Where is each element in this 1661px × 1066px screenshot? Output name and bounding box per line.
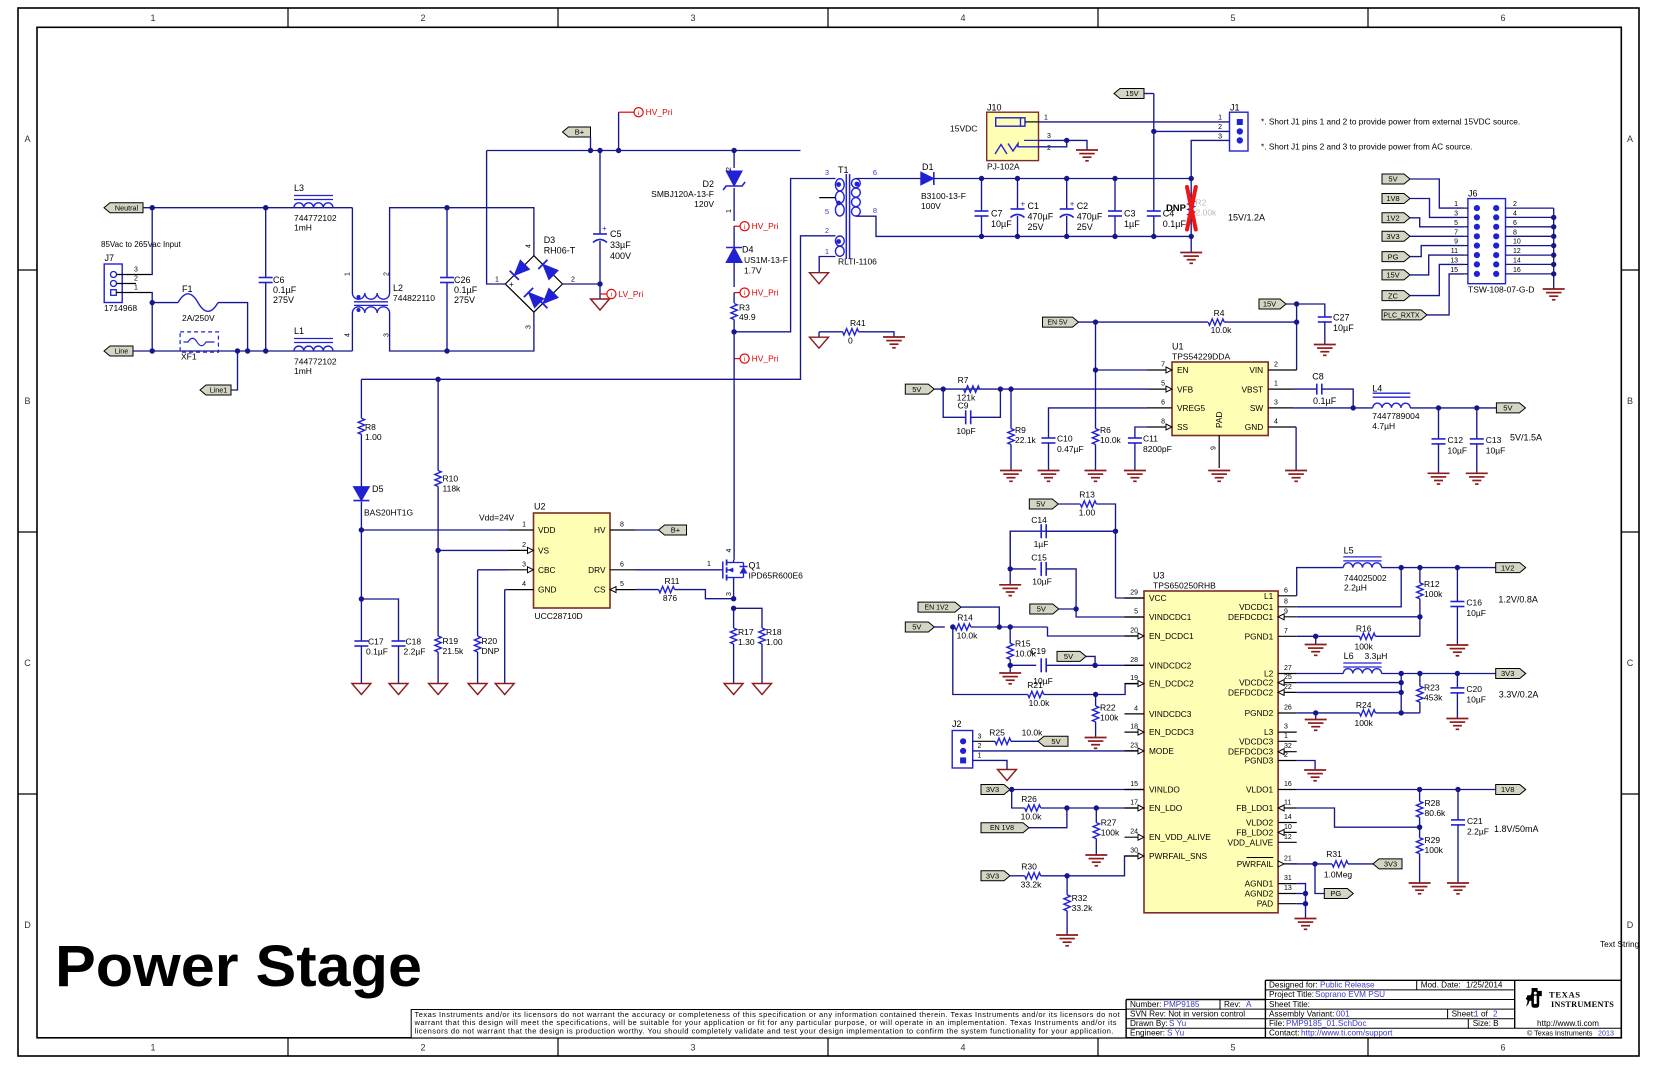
svg-text:FB_LDO2: FB_LDO2 xyxy=(1236,827,1273,837)
svg-text:12: 12 xyxy=(1284,834,1292,841)
svg-text:J2: J2 xyxy=(952,719,962,729)
resistor R9 xyxy=(1010,389,1012,428)
svg-text:R41: R41 xyxy=(850,318,866,328)
capacitor C18 xyxy=(361,599,398,641)
ground C10 xyxy=(1038,470,1060,472)
svg-text:2.2µF: 2.2µF xyxy=(1467,826,1489,836)
wire T1 aux to sense xyxy=(361,236,835,379)
ground R18 xyxy=(753,684,772,695)
svg-text:EN 1V2: EN 1V2 xyxy=(924,605,948,612)
wire R21 row from EN_1V2 net xyxy=(953,627,1028,695)
resistor R14 xyxy=(934,626,945,628)
svg-text:33.2k: 33.2k xyxy=(1021,880,1043,890)
resistor R4 xyxy=(1208,319,1224,325)
svg-text:IPD65R600E6: IPD65R600E6 xyxy=(749,571,804,581)
svg-text:5V: 5V xyxy=(912,385,921,394)
svg-text:100V: 100V xyxy=(921,201,941,211)
svg-text:1: 1 xyxy=(1454,201,1458,208)
svg-text:C9: C9 xyxy=(958,401,969,411)
svg-text:*. Short J1 pins 1 and 2 to pr: *. Short J1 pins 1 and 2 to provide powe… xyxy=(1261,117,1520,127)
svg-text:6: 6 xyxy=(1161,399,1165,406)
svg-text:1.30: 1.30 xyxy=(738,637,755,647)
svg-text:HV_Pri: HV_Pri xyxy=(752,221,779,231)
ground PGND3 xyxy=(1304,769,1326,771)
svg-text:3: 3 xyxy=(825,168,829,177)
svg-text:10µF: 10µF xyxy=(1032,577,1052,587)
wire VS row xyxy=(438,549,508,551)
svg-text:U1: U1 xyxy=(1172,342,1184,352)
logo Texas Instruments xyxy=(1526,988,1542,1008)
svg-text:Soprano EVM PSU: Soprano EVM PSU xyxy=(1315,990,1385,999)
svg-text:100k: 100k xyxy=(1100,713,1119,723)
wire PGND1 to R16 xyxy=(1297,635,1360,637)
capacitor C17 xyxy=(354,640,368,642)
svg-text:C3: C3 xyxy=(1124,209,1136,219)
svg-text:5V: 5V xyxy=(1064,652,1073,661)
svg-text:R32: R32 xyxy=(1072,893,1088,903)
ground C20 xyxy=(1446,718,1468,720)
svg-text:VIN: VIN xyxy=(1249,365,1263,375)
svg-text:470µF: 470µF xyxy=(1028,212,1054,222)
net flag Neutral xyxy=(104,203,143,213)
svg-text:C19: C19 xyxy=(1030,646,1046,656)
wire SW row xyxy=(1293,407,1373,409)
svg-text:MODE: MODE xyxy=(1149,746,1174,756)
svg-text:11: 11 xyxy=(1451,248,1458,255)
svg-text:D5: D5 xyxy=(372,484,384,494)
svg-text:BAS20HT1G: BAS20HT1G xyxy=(364,508,413,518)
power port HV_Pri 3 xyxy=(734,292,740,294)
svg-text:6: 6 xyxy=(1284,587,1288,594)
resistor R25 xyxy=(973,740,995,742)
svg-text:1µF: 1µF xyxy=(1034,539,1049,549)
svg-text:R23: R23 xyxy=(1424,683,1440,693)
svg-text:TEXAS: TEXAS xyxy=(1549,990,1581,1000)
svg-text:10: 10 xyxy=(1284,824,1292,831)
svg-text:23: 23 xyxy=(1130,742,1138,749)
svg-text:15V: 15V xyxy=(1125,89,1138,98)
svg-text:1: 1 xyxy=(522,522,526,529)
svg-text:13: 13 xyxy=(1450,257,1458,264)
svg-text:C7: C7 xyxy=(991,209,1003,219)
svg-text:19: 19 xyxy=(1130,675,1138,682)
svg-text:10.0k: 10.0k xyxy=(1029,698,1051,708)
wire VDCDC2 feedback xyxy=(1297,682,1402,684)
svg-text:SMBJ120A-13-F: SMBJ120A-13-F xyxy=(651,189,714,199)
diode D2 TVS xyxy=(733,151,735,169)
net flag 3V3 to J6 xyxy=(1382,231,1410,241)
svg-text:0.47µF: 0.47µF xyxy=(1057,444,1084,454)
svg-text:100k: 100k xyxy=(1354,641,1373,651)
svg-text:R8: R8 xyxy=(365,422,376,432)
resistor R30 xyxy=(1010,875,1025,877)
svg-text:C1: C1 xyxy=(1028,201,1040,211)
svg-text:5V: 5V xyxy=(1503,404,1512,413)
svg-text:PMP9185_01.SchDoc: PMP9185_01.SchDoc xyxy=(1286,1019,1367,1028)
wire VLDO1 1V8 row xyxy=(1297,789,1496,791)
svg-text:1: 1 xyxy=(150,1043,155,1053)
svg-text:VDCDC3: VDCDC3 xyxy=(1239,736,1274,746)
wire bridge minus to LV node xyxy=(563,283,601,285)
svg-text:VBST: VBST xyxy=(1242,384,1264,394)
ground R32 xyxy=(1056,934,1078,936)
svg-text:2: 2 xyxy=(571,277,575,284)
wire EN_1V8 xyxy=(1029,808,1067,828)
svg-text:5V: 5V xyxy=(912,623,921,632)
svg-text:10.0k: 10.0k xyxy=(1022,728,1044,738)
ground PGND2 xyxy=(1305,719,1327,721)
common-mode choke L2 xyxy=(351,208,353,293)
svg-text:6: 6 xyxy=(1513,220,1517,227)
svg-text:DNP: DNP xyxy=(1166,203,1187,214)
svg-text:XF1: XF1 xyxy=(181,352,197,362)
svg-text:D4: D4 xyxy=(742,245,754,255)
net flag 3V3 at PWRFAIL xyxy=(1373,859,1402,869)
svg-text:VLDO1: VLDO1 xyxy=(1246,785,1274,795)
svg-text:3: 3 xyxy=(1274,399,1278,406)
svg-text:PAD: PAD xyxy=(1257,899,1273,909)
wire clamp node to Q1 drain xyxy=(733,332,735,560)
resistor R29 xyxy=(1419,827,1421,838)
capacitor C3 xyxy=(1114,179,1116,212)
svg-text:8: 8 xyxy=(1161,419,1165,426)
net flag EN 5V xyxy=(1043,317,1079,327)
svg-text:LV_Pri: LV_Pri xyxy=(618,289,643,299)
svg-text:16: 16 xyxy=(1513,267,1521,274)
svg-text:120V: 120V xyxy=(694,199,714,209)
svg-text:+: + xyxy=(509,280,514,289)
fuse XF1 dashed alternate xyxy=(180,332,218,352)
wire to EN_DCDC2 xyxy=(1096,684,1147,695)
svg-text:275V: 275V xyxy=(454,295,475,305)
svg-text:8: 8 xyxy=(620,522,624,529)
svg-text:3: 3 xyxy=(1284,724,1288,731)
svg-text:744772102: 744772102 xyxy=(294,213,337,223)
wire C14 row right xyxy=(1046,530,1115,532)
svg-text:J7: J7 xyxy=(105,253,115,263)
svg-text:3: 3 xyxy=(690,1043,695,1053)
wire T1 primary tap stub xyxy=(819,197,835,199)
svg-text:0.1µF: 0.1µF xyxy=(454,285,478,295)
svg-text:7: 7 xyxy=(1161,362,1165,369)
svg-text:Power Stage: Power Stage xyxy=(55,934,422,999)
svg-text:Public Release: Public Release xyxy=(1320,981,1375,990)
svg-text:10µF: 10µF xyxy=(1448,446,1468,456)
svg-text:R10: R10 xyxy=(443,474,459,484)
capacitor C8 bootstrap xyxy=(1293,388,1317,390)
svg-text:C8: C8 xyxy=(1312,372,1324,382)
svg-text:R9: R9 xyxy=(1015,425,1026,435)
resistor R24 xyxy=(1359,710,1375,716)
net flag 3V3 output xyxy=(1496,669,1526,679)
svg-text:5: 5 xyxy=(1454,220,1458,227)
svg-text:1: 1 xyxy=(1044,115,1048,122)
svg-text:R2: R2 xyxy=(1196,198,1207,208)
wire Vdd node xyxy=(361,529,508,531)
svg-text:http://www.ti.com/support: http://www.ti.com/support xyxy=(1301,1029,1393,1038)
wire J10 pin1 to J1 pin1 xyxy=(1039,121,1230,123)
resistor R19 xyxy=(437,550,439,636)
wire PWRFAIL row xyxy=(1290,863,1332,865)
svg-text:2: 2 xyxy=(726,167,733,171)
svg-text:+: + xyxy=(1021,200,1026,209)
wire EN_1V2 to R14 row xyxy=(961,607,999,627)
svg-text:C15: C15 xyxy=(1031,553,1047,563)
capacitor C20 xyxy=(1456,674,1458,688)
ground R6 xyxy=(1085,470,1107,472)
svg-text:15V/1.2A: 15V/1.2A xyxy=(1228,213,1265,223)
svg-text:3.3µH: 3.3µH xyxy=(1365,651,1388,661)
capacitor C5 bulk xyxy=(599,151,601,235)
svg-text:GND: GND xyxy=(538,585,556,595)
svg-text:C5: C5 xyxy=(610,229,622,239)
resistor R22 xyxy=(1095,695,1097,706)
wire 15V to VIN and C27 xyxy=(1286,304,1325,317)
svg-text:R12: R12 xyxy=(1424,579,1440,589)
capacitor C9 xyxy=(943,389,966,417)
svg-text:5V: 5V xyxy=(1037,605,1046,614)
transistor Q1 MOSFET xyxy=(722,562,724,579)
ground secondary rail xyxy=(1190,236,1192,252)
svg-text:2A/250V: 2A/250V xyxy=(182,313,215,323)
svg-text:EN 1V8: EN 1V8 xyxy=(990,825,1014,832)
title block xyxy=(1265,979,1621,981)
svg-text:R21: R21 xyxy=(1027,680,1043,690)
resistor R2 DNP xyxy=(1190,179,1192,201)
svg-text:27: 27 xyxy=(1284,665,1292,672)
svg-text:EN: EN xyxy=(1177,365,1189,375)
capacitor C16 xyxy=(1456,568,1458,602)
svg-text:R22: R22 xyxy=(1100,703,1116,713)
ground C21 xyxy=(1447,882,1469,884)
capacitor C2 xyxy=(1066,179,1068,210)
net flag EN 1V8 xyxy=(981,823,1029,833)
svg-text:4: 4 xyxy=(1134,705,1138,712)
svg-text:11: 11 xyxy=(1284,800,1291,807)
svg-text:3V3: 3V3 xyxy=(986,785,999,794)
svg-text:1.00: 1.00 xyxy=(766,637,783,647)
resistor R27 xyxy=(1095,808,1097,823)
svg-text:10: 10 xyxy=(1513,239,1521,246)
svg-text:1: 1 xyxy=(1284,733,1288,740)
svg-text:C10: C10 xyxy=(1057,434,1073,444)
ground C16 xyxy=(1446,644,1468,646)
svg-text:5: 5 xyxy=(1161,381,1165,388)
svg-text:VDD_ALIVE: VDD_ALIVE xyxy=(1228,837,1274,847)
resistor R32 xyxy=(1066,876,1068,895)
svg-text:5: 5 xyxy=(1230,13,1235,23)
svg-text:85Vac to 265Vac Input: 85Vac to 265Vac Input xyxy=(101,240,182,249)
svg-text:26: 26 xyxy=(1284,705,1292,712)
wire clamp to T1 pin3 xyxy=(734,179,835,332)
svg-text:PGND2: PGND2 xyxy=(1245,708,1274,718)
svg-text:Engineer:: Engineer: xyxy=(1130,1029,1165,1038)
svg-text:Size: B: Size: B xyxy=(1473,1019,1499,1028)
net flag 1V8 output xyxy=(1496,785,1526,795)
svg-text:3V3: 3V3 xyxy=(1501,669,1514,678)
resistor R10 xyxy=(437,379,439,470)
ground R17 xyxy=(724,684,743,695)
net flag 3V3 to R30 xyxy=(981,871,1010,881)
svg-text:1.8V/50mA: 1.8V/50mA xyxy=(1494,824,1539,834)
svg-text:F1: F1 xyxy=(182,284,193,294)
ground C13 xyxy=(1466,472,1488,474)
ground R9 xyxy=(1000,470,1022,472)
svg-text:A: A xyxy=(24,134,30,144)
svg-text:17: 17 xyxy=(1130,800,1138,807)
ground AGND xyxy=(1295,918,1317,920)
svg-text:1V2: 1V2 xyxy=(1386,214,1399,223)
wire L1 to L5 xyxy=(1297,568,1344,596)
svg-text:15: 15 xyxy=(1450,267,1458,274)
svg-text:PGND1: PGND1 xyxy=(1245,631,1274,641)
svg-text:C: C xyxy=(24,658,31,668)
svg-text:2: 2 xyxy=(420,13,425,23)
svg-text:1mH: 1mH xyxy=(294,223,312,233)
svg-text:1: 1 xyxy=(134,285,138,292)
svg-text:3.3V/0.2A: 3.3V/0.2A xyxy=(1499,690,1539,700)
svg-text:VS: VS xyxy=(538,545,550,555)
svg-text:VFB: VFB xyxy=(1177,384,1194,394)
svg-text:HV_Pri: HV_Pri xyxy=(646,107,673,117)
svg-text:1µF: 1µF xyxy=(1124,219,1140,229)
wire Line1 xyxy=(231,351,238,390)
svg-text:PLC_RXTX: PLC_RXTX xyxy=(1383,312,1420,319)
svg-text:2.00k: 2.00k xyxy=(1196,208,1218,218)
svg-text:5V: 5V xyxy=(1051,737,1060,746)
wire PGND3 to ground xyxy=(1297,761,1315,771)
svg-text:3: 3 xyxy=(526,325,533,329)
svg-text:744822110: 744822110 xyxy=(393,293,435,303)
svg-text:5: 5 xyxy=(1230,1043,1235,1053)
svg-text:R16: R16 xyxy=(1356,624,1372,634)
ground PGND1 xyxy=(1305,644,1327,646)
svg-text:INSTRUMENTS: INSTRUMENTS xyxy=(1551,1000,1614,1009)
svg-text:PJ-102A: PJ-102A xyxy=(987,162,1020,172)
svg-text:L6: L6 xyxy=(1344,651,1354,661)
svg-text:ZC: ZC xyxy=(1388,291,1399,300)
svg-text:Project Title:: Project Title: xyxy=(1269,990,1314,999)
svg-text:R28: R28 xyxy=(1425,798,1441,808)
ground R27 xyxy=(1085,854,1107,856)
svg-text:R31: R31 xyxy=(1326,849,1342,859)
svg-text:3: 3 xyxy=(978,734,982,741)
wire VINLDO row xyxy=(1010,789,1147,791)
svg-text:TPS54229DDA: TPS54229DDA xyxy=(1172,351,1230,361)
svg-text:25V: 25V xyxy=(1028,222,1044,232)
svg-text:L3: L3 xyxy=(294,183,304,193)
svg-text:3: 3 xyxy=(1218,133,1222,140)
wire J7 pin1 to Line and fuse xyxy=(151,293,152,352)
svg-text:B3100-13-F: B3100-13-F xyxy=(921,191,966,201)
net flag 15V mid xyxy=(1259,299,1286,309)
svg-text:2: 2 xyxy=(1047,145,1051,152)
svg-text:1: 1 xyxy=(726,209,733,213)
svg-text:L5: L5 xyxy=(1344,545,1354,555)
net flag B+ xyxy=(563,127,591,137)
svg-text:7: 7 xyxy=(1284,628,1288,635)
svg-text:1: 1 xyxy=(1218,115,1222,122)
wire J1 pin2 to 15V xyxy=(1154,130,1230,132)
svg-text:R17: R17 xyxy=(738,627,754,637)
svg-text:6: 6 xyxy=(1500,13,1505,23)
svg-text:33.2k: 33.2k xyxy=(1072,903,1094,913)
svg-text:J1: J1 xyxy=(1230,103,1240,113)
wire AGND PAD to ground xyxy=(1297,884,1306,919)
ground R29 xyxy=(1409,882,1431,884)
wire Line bottom rail xyxy=(133,350,352,352)
ground C17 xyxy=(352,684,371,695)
svg-text:100k: 100k xyxy=(1425,845,1444,855)
wire Neutral top rail xyxy=(143,207,352,209)
svg-text:2.2µH: 2.2µH xyxy=(1344,583,1367,593)
svg-text:D: D xyxy=(1627,920,1634,930)
net flag 1V2 output xyxy=(1496,563,1526,573)
svg-text:30: 30 xyxy=(1130,848,1138,855)
wire aux sense top xyxy=(360,379,362,418)
svg-text:VDD: VDD xyxy=(538,525,556,535)
svg-text:Assembly Variant:: Assembly Variant: xyxy=(1269,1009,1334,1018)
wire 15V top rail xyxy=(934,178,1191,180)
svg-text:4: 4 xyxy=(526,244,533,248)
svg-text:CS: CS xyxy=(594,585,606,595)
svg-text:D3: D3 xyxy=(544,235,556,245)
svg-text:5V: 5V xyxy=(1036,500,1045,509)
ground R41 right xyxy=(883,336,905,338)
svg-text:20: 20 xyxy=(1130,628,1138,635)
svg-text:Designed for:: Designed for: xyxy=(1269,981,1318,990)
svg-text:RLTI-1106: RLTI-1106 xyxy=(838,257,877,267)
svg-text:2: 2 xyxy=(420,1043,425,1053)
svg-text:C27: C27 xyxy=(1333,313,1350,323)
svg-text:US1M-13-F: US1M-13-F xyxy=(744,255,788,265)
resistor R16 xyxy=(1359,633,1375,639)
svg-text:U2: U2 xyxy=(534,502,546,512)
wire PG branch xyxy=(1315,864,1324,894)
svg-text:HV: HV xyxy=(594,525,606,535)
svg-text:10.0k: 10.0k xyxy=(1100,435,1122,445)
svg-text:21: 21 xyxy=(1284,855,1292,862)
svg-text:1V2: 1V2 xyxy=(1501,563,1514,572)
wire DEFDCDC2 feedback xyxy=(1297,691,1402,693)
svg-text:Contact:: Contact: xyxy=(1269,1029,1300,1038)
svg-text:3: 3 xyxy=(1454,210,1458,217)
ground U2 GND xyxy=(495,684,514,695)
svg-text:453k: 453k xyxy=(1424,693,1443,703)
svg-text:C11: C11 xyxy=(1143,434,1158,444)
wire VINDCDC2 row xyxy=(1095,664,1147,666)
wire VFB row xyxy=(934,388,1147,390)
svg-text:A: A xyxy=(1627,134,1633,144)
svg-text:VLDO2: VLDO2 xyxy=(1246,818,1274,828)
capacitor C15 xyxy=(1008,566,1013,571)
wire J6 ground bus xyxy=(1553,208,1555,289)
svg-text:15V: 15V xyxy=(1263,300,1276,309)
svg-text:L1: L1 xyxy=(294,326,304,336)
bridge rectifier D3 xyxy=(505,256,562,312)
svg-text:Sheet Title:: Sheet Title: xyxy=(1269,1000,1310,1009)
svg-text:5V/1.5A: 5V/1.5A xyxy=(1510,433,1542,443)
svg-text:1.0Meg: 1.0Meg xyxy=(1324,870,1353,880)
wire T1 pin8 to gnd rail xyxy=(856,216,1191,236)
svg-text:A: A xyxy=(1246,1000,1252,1009)
svg-text:22: 22 xyxy=(1284,684,1292,691)
svg-text:RH06-T: RH06-T xyxy=(544,246,576,256)
svg-text:R30: R30 xyxy=(1021,862,1037,872)
svg-text:R24: R24 xyxy=(1356,700,1372,710)
svg-text:C: C xyxy=(1627,658,1634,668)
resistor R3 xyxy=(733,293,735,303)
